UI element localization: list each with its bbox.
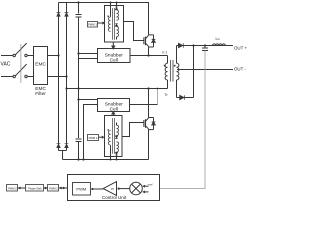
svg-text:Lo: Lo bbox=[216, 37, 220, 41]
svg-text:Control Unit: Control Unit bbox=[102, 195, 127, 200]
svg-text:PWM 1: PWM 1 bbox=[49, 187, 58, 191]
svg-text:Snubber: Snubber bbox=[105, 52, 124, 58]
svg-text:Snubber: Snubber bbox=[105, 101, 124, 107]
svg-text:Phase Shift: Phase Shift bbox=[28, 187, 42, 191]
svg-text:VAC: VAC bbox=[1, 62, 11, 68]
svg-text:+ref: +ref bbox=[148, 182, 153, 186]
svg-text:Filter: Filter bbox=[35, 91, 46, 97]
svg-text:OUT +: OUT + bbox=[234, 45, 247, 50]
svg-text:PWM: PWM bbox=[76, 187, 86, 192]
svg-text:PWM 2: PWM 2 bbox=[8, 187, 17, 191]
svg-text:OUT -: OUT - bbox=[234, 66, 246, 71]
svg-text:n:1: n:1 bbox=[162, 50, 167, 54]
svg-text:Cell: Cell bbox=[110, 107, 118, 113]
svg-text:Tr: Tr bbox=[165, 93, 169, 97]
svg-text:EMC: EMC bbox=[35, 62, 46, 68]
svg-text:PWM 1: PWM 1 bbox=[88, 22, 97, 26]
svg-text:PI: PI bbox=[111, 187, 114, 191]
svg-text:PWM 2: PWM 2 bbox=[89, 136, 98, 140]
svg-text:Cell: Cell bbox=[110, 58, 118, 64]
svg-text:-: - bbox=[148, 192, 149, 196]
